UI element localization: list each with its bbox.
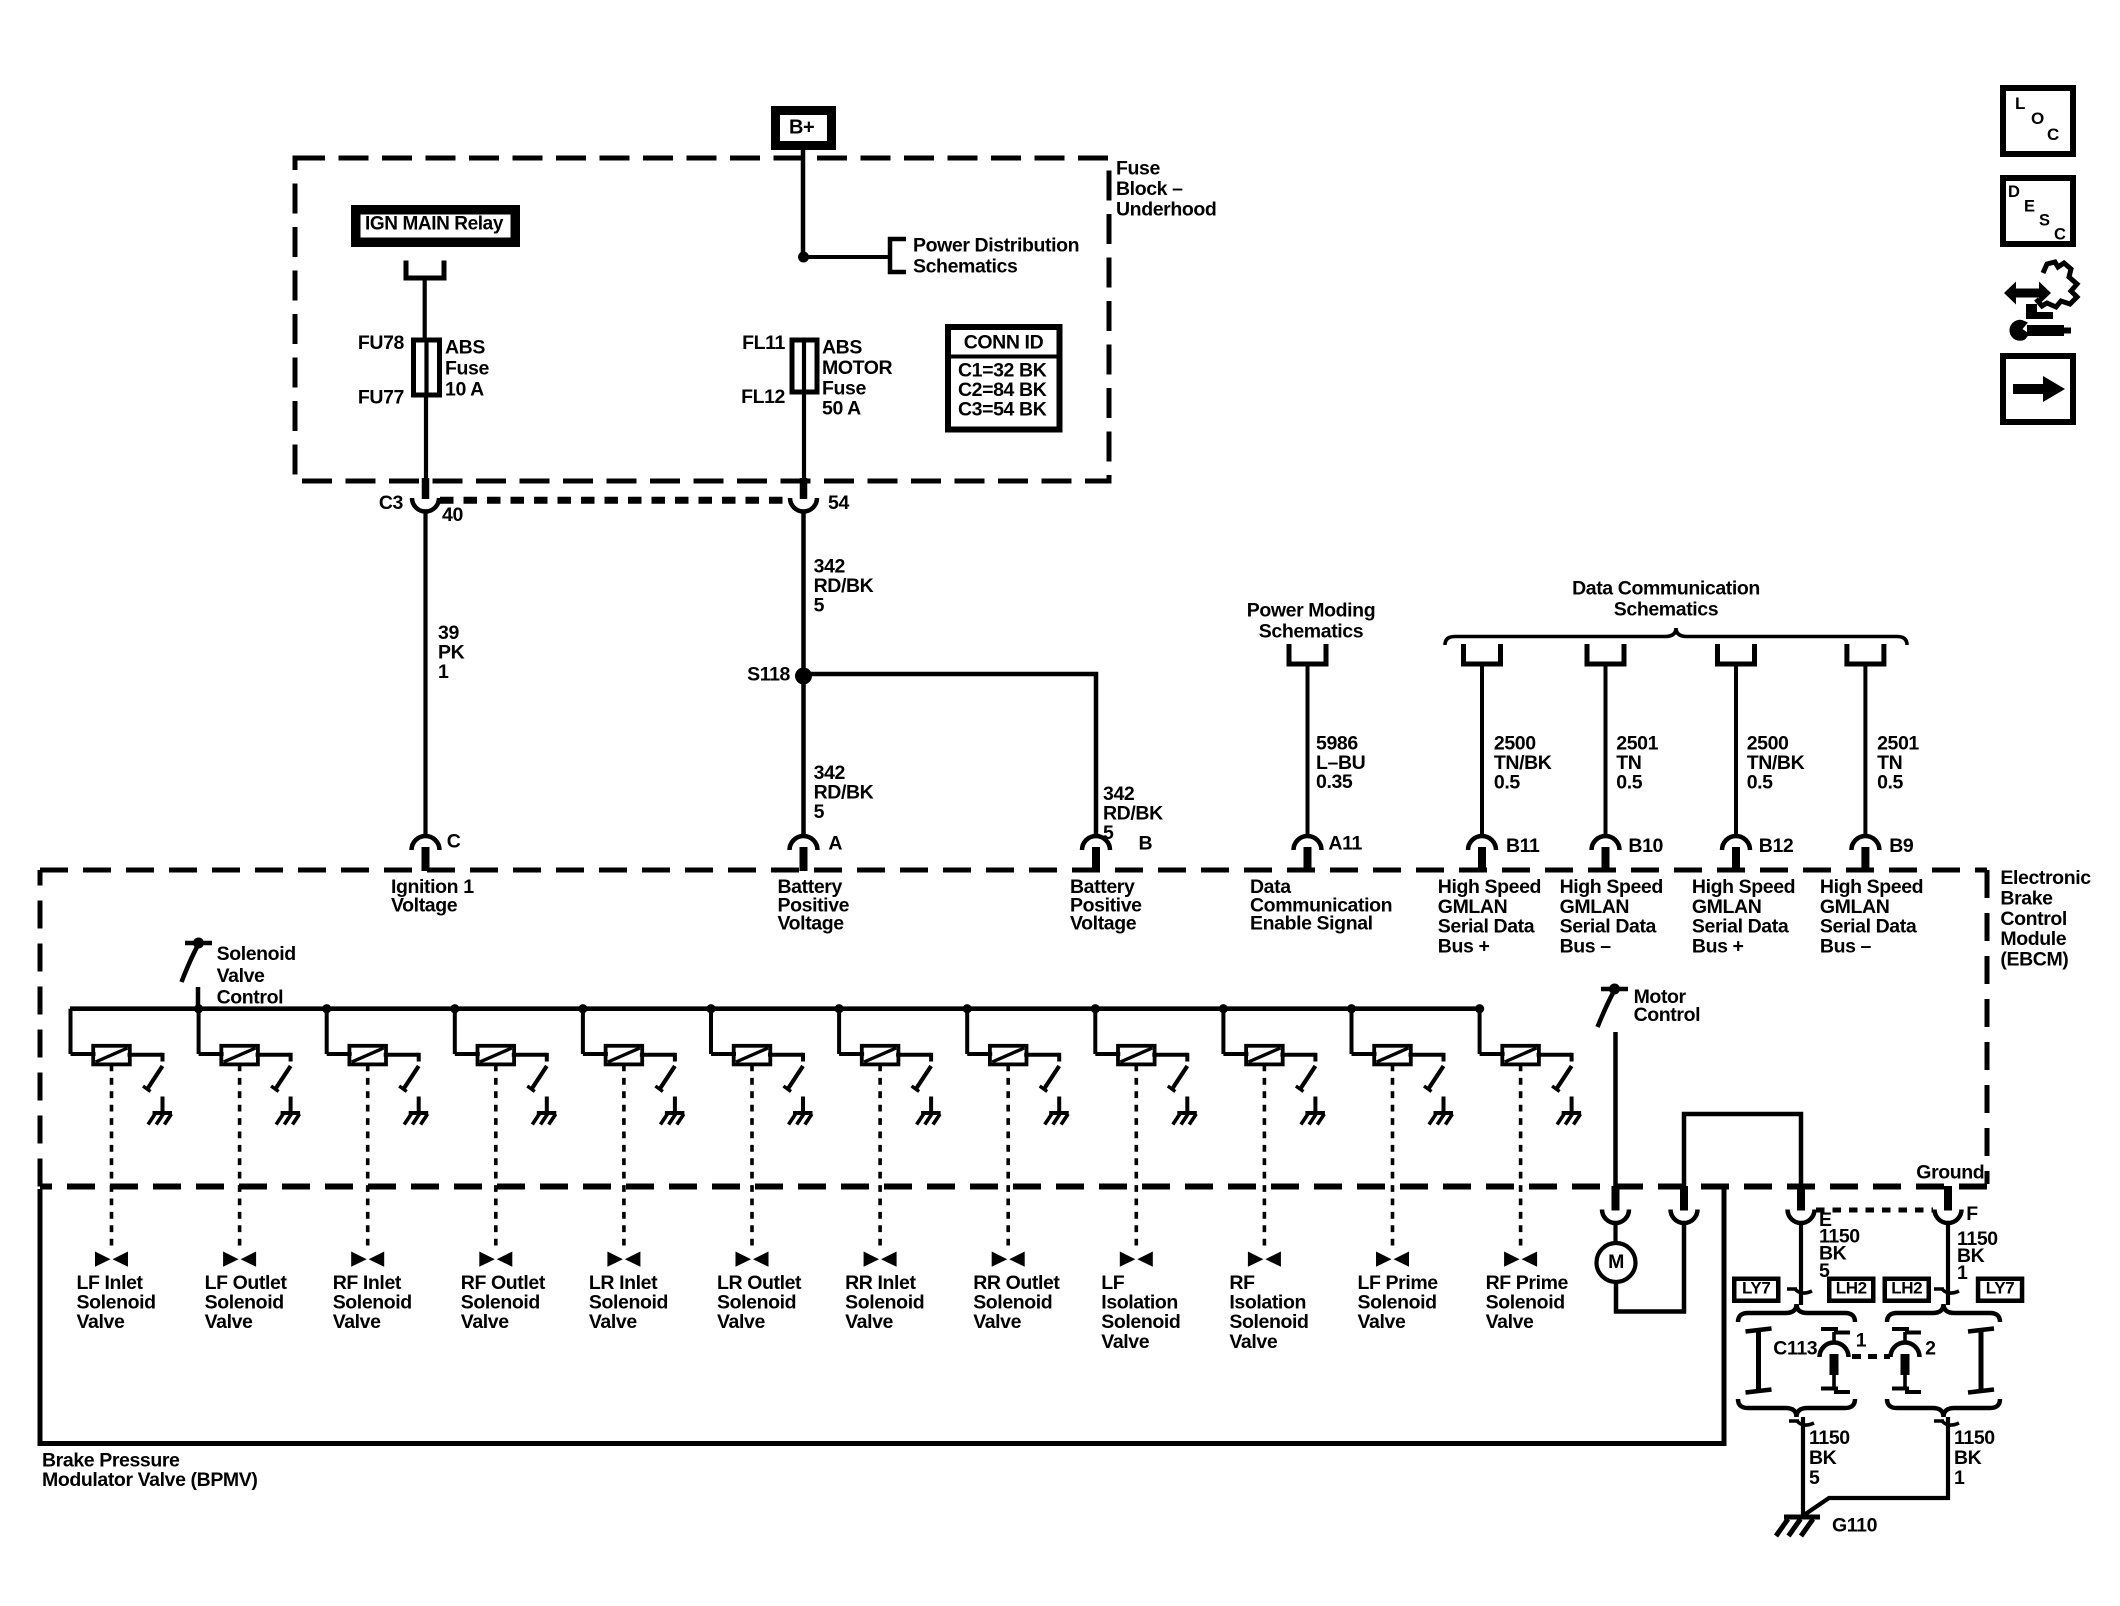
label wire 1150 BK 1 lower [1954, 1427, 1995, 1489]
svg-text:Serial Data: Serial Data [1692, 916, 1789, 938]
terminal B9 at EBCM [1851, 836, 1879, 871]
label LF Inlet Solenoid Valve [77, 1272, 156, 1333]
svg-text:2: 2 [1925, 1338, 1936, 1360]
svg-text:Underhood: Underhood [1116, 199, 1216, 221]
valve symbol LF Outlet Solenoid Valve [223, 1252, 256, 1267]
CONN ID table [948, 327, 1060, 430]
wire B+ to fuse block [801, 150, 806, 258]
label ABS MOTOR Fuse 50 A [822, 337, 893, 420]
svg-text:GMLAN: GMLAN [1692, 896, 1762, 918]
driver switch RF Prime Solenoid Valve [1552, 1066, 1572, 1092]
terminal A at EBCM [790, 836, 818, 871]
svg-text:GMLAN: GMLAN [1438, 896, 1508, 918]
svg-text:B+: B+ [789, 116, 814, 138]
solenoid coil RF Inlet Solenoid Valve [349, 1046, 386, 1065]
driver switch LF Prime Solenoid Valve [1424, 1066, 1444, 1092]
DESC navigation box icon [2003, 178, 2073, 244]
solenoid valve control switch icon [182, 938, 213, 1010]
svg-text:C3: C3 [379, 492, 404, 514]
chassis ground RF Inlet Solenoid Valve [404, 1113, 428, 1125]
svg-text:Module: Module [2000, 928, 2066, 950]
svg-text:Schematics: Schematics [1614, 599, 1719, 621]
chassis ground LF Prime Solenoid Valve [1429, 1113, 1453, 1125]
dashed actuation link RR Inlet Solenoid Valve [878, 1065, 882, 1252]
wire bus drop RR Outlet Solenoid Valve [967, 1009, 992, 1054]
label S118 [747, 664, 790, 686]
terminal B10 at EBCM [1592, 836, 1620, 871]
wire coil to driver switch RF Isolation Solenoid Valve [1280, 1053, 1315, 1062]
label High Speed GMLAN Serial Data Bus [1560, 876, 1663, 957]
svg-text:C: C [2047, 125, 2059, 144]
brace above C113 left [1738, 1304, 1855, 1322]
label wire 342 RD/BK 5 to B [1103, 783, 1163, 844]
svg-text:Control: Control [1634, 1004, 1701, 1026]
junction on bus for RR Outlet Solenoid Valve [963, 1004, 972, 1013]
svg-text:Valve: Valve [1101, 1331, 1149, 1353]
chassis ground LF Isolation Solenoid Valve [1173, 1113, 1197, 1125]
relay IGN MAIN Relay box [351, 205, 520, 247]
label LR Inlet Solenoid Valve [589, 1272, 668, 1333]
svg-text:Valve: Valve [217, 965, 265, 987]
BPMV box [40, 1189, 1724, 1444]
chassis ground RR Outlet Solenoid Valve [1045, 1113, 1069, 1125]
svg-text:IGN MAIN Relay: IGN MAIN Relay [365, 214, 504, 235]
wire 39 PK [423, 510, 427, 834]
dashed actuation link LF Prime Solenoid Valve [1391, 1065, 1395, 1252]
svg-text:Valve: Valve [333, 1311, 381, 1333]
svg-text:Valve: Valve [973, 1311, 1021, 1333]
component bracket GMLAN B11 [1464, 644, 1501, 664]
dotted tie line E-F [1816, 1208, 1933, 1213]
inline tick on G110 wire right [1934, 1421, 1959, 1425]
ground stem RR Outlet Solenoid Valve [1057, 1097, 1061, 1114]
label Brake Pressure Modulator Valve (BPMV) [42, 1450, 257, 1492]
wire S118 branch to pin B [804, 674, 1097, 834]
svg-text:1: 1 [1957, 1262, 1968, 1284]
label Power Distribution Schematics [913, 235, 1079, 278]
terminal B11 at EBCM [1468, 836, 1496, 871]
terminal motor feed at EBCM bottom [1602, 1186, 1629, 1223]
svg-text:ABS: ABS [445, 337, 485, 359]
svg-text:Valve: Valve [77, 1311, 125, 1333]
svg-text:C: C [447, 831, 461, 853]
solenoid coil LF Outlet Solenoid Valve [221, 1046, 258, 1065]
connector C113 housing right [1968, 1329, 1994, 1393]
svg-text:Serial Data: Serial Data [1820, 916, 1917, 938]
svg-text:5: 5 [814, 801, 825, 823]
svg-text:Brake: Brake [2000, 887, 2053, 909]
label Motor Control [1634, 986, 1701, 1026]
driver switch RR Inlet Solenoid Valve [912, 1066, 932, 1092]
brace below C113 right [1887, 1399, 2000, 1417]
svg-text:B12: B12 [1759, 835, 1794, 857]
label wire 2500 TN/BK 0.5 [1494, 733, 1552, 794]
label FU77 [358, 386, 404, 408]
driver switch RF Inlet Solenoid Valve [399, 1066, 419, 1092]
wire fuse FU77 to connector C3-40 [424, 395, 428, 484]
svg-text:Enable Signal: Enable Signal [1250, 913, 1373, 935]
wire C113 to G110 [1801, 1417, 1805, 1515]
dashed actuation link LR Inlet Solenoid Valve [622, 1065, 626, 1252]
terminal C at EBCM [412, 836, 440, 871]
label pin 2 [1925, 1338, 1936, 1360]
ground stem RF Inlet Solenoid Valve [417, 1097, 421, 1114]
wire coil to driver switch LF Outlet Solenoid Valve [256, 1053, 291, 1062]
solenoid coil RF Outlet Solenoid Valve [478, 1046, 515, 1065]
wire fuse FL12 to connector 54 [802, 392, 806, 484]
svg-text:High Speed: High Speed [1692, 876, 1795, 898]
svg-text:L: L [2015, 94, 2025, 113]
ground stem LR Inlet Solenoid Valve [673, 1097, 677, 1114]
label RF Isolation Solenoid Valve [1229, 1272, 1308, 1353]
svg-text:GMLAN: GMLAN [1560, 896, 1630, 918]
label Ground [1916, 1161, 1984, 1183]
label 40 [442, 504, 463, 526]
svg-text:Fuse: Fuse [1116, 158, 1160, 180]
label RF Outlet Solenoid Valve [461, 1272, 546, 1333]
label wire 2500 TN/BK 0.5 [1747, 733, 1805, 794]
motor M [1597, 1243, 1636, 1282]
motor control switch icon [1598, 984, 1629, 1028]
svg-text:Power Distribution: Power Distribution [913, 235, 1079, 257]
wire coil to driver switch LF Prime Solenoid Valve [1409, 1053, 1444, 1062]
wire coil to driver switch RF Inlet Solenoid Valve [384, 1053, 419, 1062]
label pin E [1819, 1209, 1832, 1231]
label wire 39 PK 1 [438, 622, 465, 683]
driver switch LF Inlet Solenoid Valve [143, 1066, 163, 1092]
svg-text:BK: BK [1809, 1447, 1837, 1469]
inline tick at F wire [1934, 1289, 1959, 1293]
junction on bus for LR Outlet Solenoid Valve [706, 1004, 715, 1013]
label pin 1 [1856, 1329, 1867, 1351]
label Electronic Brake Control Module (EBCM) [2000, 867, 2091, 971]
valve symbol RF Prime Solenoid Valve [1504, 1252, 1537, 1267]
dashed actuation link LF Isolation Solenoid Valve [1135, 1065, 1139, 1252]
terminal E below EBCM [1788, 1186, 1815, 1223]
label pin B [1139, 833, 1153, 855]
svg-text:Electronic: Electronic [2000, 867, 2091, 889]
svg-text:Valve: Valve [845, 1311, 893, 1333]
svg-text:Fuse: Fuse [445, 358, 489, 380]
ground stem LF Outlet Solenoid Valve [289, 1097, 293, 1114]
terminal F below EBCM [1935, 1186, 1962, 1223]
svg-text:Data Communication: Data Communication [1572, 577, 1760, 599]
solenoid coil RR Inlet Solenoid Valve [862, 1046, 899, 1065]
wire coil to driver switch LR Inlet Solenoid Valve [640, 1053, 675, 1062]
wire to motor [1613, 1222, 1617, 1245]
power node B+ [771, 106, 836, 150]
label RF Inlet Solenoid Valve [333, 1272, 412, 1333]
wire pin E to C113 [1799, 1222, 1803, 1306]
svg-text:S118: S118 [747, 664, 790, 686]
inline tick on G110 wire left [1789, 1421, 1814, 1425]
wire F branch to G110 [1804, 1417, 1948, 1515]
svg-text:5: 5 [814, 595, 825, 617]
label Data Communication Schematics [1572, 577, 1760, 620]
label Battery Positive Voltage B [1070, 876, 1142, 934]
svg-text:High Speed: High Speed [1820, 876, 1923, 898]
wire to power distribution reference [804, 255, 889, 259]
dashed actuation link LR Outlet Solenoid Valve [750, 1065, 754, 1252]
ground stem RF Prime Solenoid Valve [1570, 1097, 1574, 1114]
connector C113 housing left [1746, 1329, 1772, 1393]
wire bus drop LR Outlet Solenoid Valve [711, 1009, 736, 1054]
solenoid coil LF Prime Solenoid Valve [1374, 1046, 1411, 1065]
label pin B11 [1506, 835, 1540, 857]
svg-text:Bus +: Bus + [1692, 935, 1744, 957]
wire coil to driver switch RR Outlet Solenoid Valve [1024, 1053, 1059, 1062]
label pin B9 [1889, 835, 1914, 857]
wire coil to driver switch LR Outlet Solenoid Valve [768, 1053, 803, 1062]
ground G110 [1776, 1517, 1820, 1536]
junction on bus for LF Prime Solenoid Valve [1347, 1004, 1356, 1013]
label Ignition 1 Voltage [391, 876, 474, 916]
dashed actuation link RF Inlet Solenoid Valve [366, 1065, 370, 1252]
label High Speed GMLAN Serial Data Bus [1820, 876, 1923, 957]
component bracket GMLAN B10 [1587, 644, 1624, 664]
svg-text:0.5: 0.5 [1877, 771, 1903, 793]
svg-text:S: S [2039, 211, 2050, 229]
fuse FL11/FL12 ABS MOTOR Fuse 50A [792, 340, 817, 392]
EBCM module dashed box [40, 870, 1987, 1187]
svg-text:MOTOR: MOTOR [822, 357, 893, 379]
chassis ground RF Prime Solenoid Valve [1557, 1113, 1581, 1125]
harness code box LY7 [1976, 1277, 2025, 1304]
label Data Communication Enable Signal [1250, 876, 1392, 934]
brace data communication [1445, 628, 1907, 645]
svg-text:Valve: Valve [205, 1311, 253, 1333]
svg-text:E: E [2024, 197, 2035, 215]
svg-text:Valve: Valve [1229, 1331, 1277, 1353]
svg-text:A: A [828, 833, 842, 855]
wire motor return loop [1616, 1222, 1684, 1312]
wire relay to fuse FU78 [423, 278, 427, 341]
solenoid coil RF Prime Solenoid Valve [1502, 1046, 1539, 1065]
wire coil to driver switch RF Prime Solenoid Valve [1537, 1053, 1572, 1062]
valve symbol RF Isolation Solenoid Valve [1248, 1252, 1281, 1267]
label C3 [379, 492, 404, 514]
junction on B+ feed [798, 252, 809, 263]
label Battery Positive Voltage A [778, 876, 850, 934]
component bracket GMLAN B12 [1718, 644, 1755, 664]
svg-text:1150: 1150 [1809, 1427, 1850, 1449]
harness code box LH2 [1883, 1277, 1932, 1304]
label wire 5986 L-BU 0.35 [1316, 733, 1365, 794]
junction on bus for RR Inlet Solenoid Valve [835, 1004, 844, 1013]
label wire 1150 BK 5 at E [1819, 1226, 1860, 1282]
svg-text:5: 5 [1809, 1467, 1820, 1489]
label wire 2501 TN 0.5 [1616, 733, 1658, 794]
label G110 [1832, 1514, 1878, 1536]
svg-text:Valve: Valve [461, 1311, 509, 1333]
svg-text:Schematics: Schematics [913, 255, 1018, 277]
harness code box LY7 [1732, 1277, 1781, 1304]
driver switch LF Isolation Solenoid Valve [1168, 1066, 1188, 1092]
ground stem RF Isolation Solenoid Valve [1313, 1097, 1317, 1114]
svg-text:D: D [2008, 183, 2020, 201]
svg-text:1: 1 [438, 661, 449, 683]
svg-text:B: B [1139, 833, 1153, 855]
svg-text:Bus +: Bus + [1438, 935, 1490, 957]
svg-text:Valve: Valve [589, 1311, 637, 1333]
valve symbol LF Isolation Solenoid Valve [1120, 1252, 1153, 1267]
dotted tie line C113 pins [1852, 1354, 1890, 1359]
svg-text:B11: B11 [1506, 835, 1540, 857]
brace above C113 right [1887, 1304, 2000, 1322]
connector C3 pin 54 [790, 478, 817, 512]
driver switch RF Isolation Solenoid Valve [1296, 1066, 1316, 1092]
svg-text:A11: A11 [1328, 833, 1362, 855]
solenoid control bus [70, 1006, 1480, 1011]
svg-text:Bus –: Bus – [1820, 935, 1872, 957]
chassis ground RR Inlet Solenoid Valve [917, 1113, 941, 1125]
terminal B12 at EBCM [1722, 836, 1750, 871]
driver switch RR Outlet Solenoid Valve [1040, 1066, 1060, 1092]
svg-text:C: C [2054, 225, 2066, 243]
ground stem RF Outlet Solenoid Valve [545, 1097, 549, 1114]
label C113 [1773, 1338, 1817, 1360]
svg-text:Voltage: Voltage [391, 894, 458, 916]
wire 2500 TN/BK to B12 [1734, 666, 1738, 834]
junction on bus for RF Isolation Solenoid Valve [1219, 1004, 1228, 1013]
wire bus drop LF Inlet Solenoid Valve [71, 1009, 96, 1054]
harness code box LH2 [1827, 1277, 1876, 1304]
svg-text:50 A: 50 A [822, 398, 861, 420]
ground stem LR Outlet Solenoid Valve [801, 1097, 805, 1114]
component bracket power moding [1289, 644, 1326, 664]
svg-text:Schematics: Schematics [1259, 620, 1364, 642]
next-page arrow box icon [2003, 356, 2073, 422]
solenoid coil LR Inlet Solenoid Valve [606, 1046, 643, 1065]
label pin C [447, 831, 461, 853]
label Solenoid Valve Control [217, 943, 296, 1009]
svg-text:C113: C113 [1773, 1338, 1817, 1360]
dashed actuation link RF Prime Solenoid Valve [1519, 1065, 1523, 1252]
component bracket GMLAN B9 [1847, 644, 1884, 664]
junction on bus for RF Prime Solenoid Valve [1475, 1004, 1484, 1013]
terminal B at EBCM [1082, 836, 1110, 871]
junction on bus for LF Outlet Solenoid Valve [194, 1004, 203, 1013]
wire coil to driver switch LF Inlet Solenoid Valve [128, 1053, 163, 1062]
svg-text:C3=54 BK: C3=54 BK [958, 399, 1047, 421]
svg-text:1150: 1150 [1954, 1427, 1995, 1449]
ground stem LF Prime Solenoid Valve [1442, 1097, 1446, 1114]
dashed actuation link LF Outlet Solenoid Valve [238, 1065, 242, 1252]
label High Speed GMLAN Serial Data Bus [1438, 876, 1541, 957]
wire pin F to C113 [1946, 1222, 1950, 1306]
ground stem RR Inlet Solenoid Valve [929, 1097, 933, 1114]
chassis ground LF Inlet Solenoid Valve [148, 1113, 172, 1125]
svg-text:O: O [2031, 109, 2044, 128]
valve symbol RF Inlet Solenoid Valve [351, 1252, 384, 1267]
label wire 1150 BK 1 at F [1957, 1228, 1998, 1284]
svg-text:B10: B10 [1628, 835, 1663, 857]
valve symbol RR Inlet Solenoid Valve [864, 1252, 897, 1267]
wire bus drop LR Inlet Solenoid Valve [583, 1009, 608, 1054]
svg-text:F: F [1966, 1203, 1978, 1225]
terminal motor return at EBCM bottom [1671, 1186, 1698, 1223]
svg-text:High Speed: High Speed [1438, 876, 1541, 898]
dashed actuation link RF Outlet Solenoid Valve [494, 1065, 498, 1252]
svg-text:0.35: 0.35 [1316, 771, 1353, 793]
junction on bus for RF Outlet Solenoid Valve [450, 1004, 459, 1013]
fuse block - underhood dashed box [295, 158, 1109, 481]
svg-text:Fuse: Fuse [822, 377, 866, 399]
wire bus drop LF Outlet Solenoid Valve [199, 1009, 224, 1054]
svg-text:Valve: Valve [1358, 1311, 1406, 1333]
svg-text:G110: G110 [1832, 1514, 1878, 1536]
valve symbol RF Outlet Solenoid Valve [479, 1252, 512, 1267]
connector C3 pin 40 [412, 478, 439, 512]
component bracket under relay [406, 261, 444, 279]
dashed actuation link RF Isolation Solenoid Valve [1263, 1065, 1267, 1252]
svg-text:FL11: FL11 [742, 332, 785, 354]
svg-text:Voltage: Voltage [778, 913, 845, 935]
driver switch LF Outlet Solenoid Valve [271, 1066, 291, 1092]
svg-text:10 A: 10 A [445, 379, 484, 401]
label wire 342 RD/BK 5 to A [814, 762, 874, 823]
wire bus drop RF Prime Solenoid Valve [1480, 1009, 1505, 1054]
wire coil to driver switch LF Isolation Solenoid Valve [1152, 1053, 1187, 1062]
svg-text:LY7: LY7 [1742, 1279, 1770, 1298]
svg-text:Bus –: Bus – [1560, 935, 1612, 957]
svg-text:1: 1 [1856, 1329, 1867, 1351]
splice S118 [795, 668, 812, 685]
wire bus drop RF Isolation Solenoid Valve [1223, 1009, 1248, 1054]
solenoid coil LF Isolation Solenoid Valve [1118, 1046, 1155, 1065]
svg-text:(EBCM): (EBCM) [2000, 949, 2068, 971]
label wire 342 RD/BK 5 upper [814, 556, 874, 617]
label LF Isolation Solenoid Valve [1101, 1272, 1180, 1353]
schematic navigation icon (arrows and wrench) [2004, 262, 2077, 341]
wire bus drop RR Inlet Solenoid Valve [839, 1009, 864, 1054]
fuse FU78/FU77 ABS Fuse 10A [414, 340, 440, 395]
valve symbol LR Outlet Solenoid Valve [736, 1252, 769, 1267]
svg-text:LH2: LH2 [1836, 1279, 1867, 1298]
terminal A11 at EBCM [1294, 836, 1322, 871]
wire 342 RD/BK lower to pin A [801, 676, 806, 834]
svg-text:Voltage: Voltage [1070, 913, 1137, 935]
driver switch RF Outlet Solenoid Valve [527, 1066, 547, 1092]
svg-text:FU78: FU78 [358, 332, 405, 354]
label RR Outlet Solenoid Valve [973, 1272, 1060, 1333]
brace below C113 left [1738, 1399, 1855, 1417]
svg-text:Valve: Valve [1486, 1311, 1534, 1333]
label ABS Fuse 10 A [445, 337, 489, 401]
label wire 1150 BK 5 lower [1809, 1427, 1850, 1489]
label pin F [1966, 1203, 1978, 1225]
junction on bus for LF Isolation Solenoid Valve [1091, 1004, 1100, 1013]
svg-text:0.5: 0.5 [1747, 771, 1773, 793]
chassis ground LR Inlet Solenoid Valve [660, 1113, 684, 1125]
label Power Moding Schematics [1247, 600, 1375, 643]
svg-text:Ground: Ground [1916, 1161, 1984, 1183]
svg-text:LH2: LH2 [1891, 1279, 1922, 1298]
junction on bus for RF Inlet Solenoid Valve [322, 1004, 331, 1013]
wire 2501 TN to B10 [1604, 666, 1608, 834]
valve symbol RR Outlet Solenoid Valve [992, 1252, 1025, 1267]
wire coil to driver switch RF Outlet Solenoid Valve [512, 1053, 547, 1062]
wire 2500 TN/BK to B11 [1480, 666, 1484, 834]
label RF Prime Solenoid Valve [1486, 1272, 1569, 1333]
svg-text:Valve: Valve [717, 1311, 765, 1333]
svg-text:FU77: FU77 [358, 386, 404, 408]
wire coil to driver switch RR Inlet Solenoid Valve [896, 1053, 931, 1062]
svg-text:0.5: 0.5 [1616, 771, 1642, 793]
svg-text:Serial Data: Serial Data [1560, 916, 1657, 938]
dashed actuation link LF Inlet Solenoid Valve [110, 1065, 114, 1252]
label pin B10 [1628, 835, 1663, 857]
